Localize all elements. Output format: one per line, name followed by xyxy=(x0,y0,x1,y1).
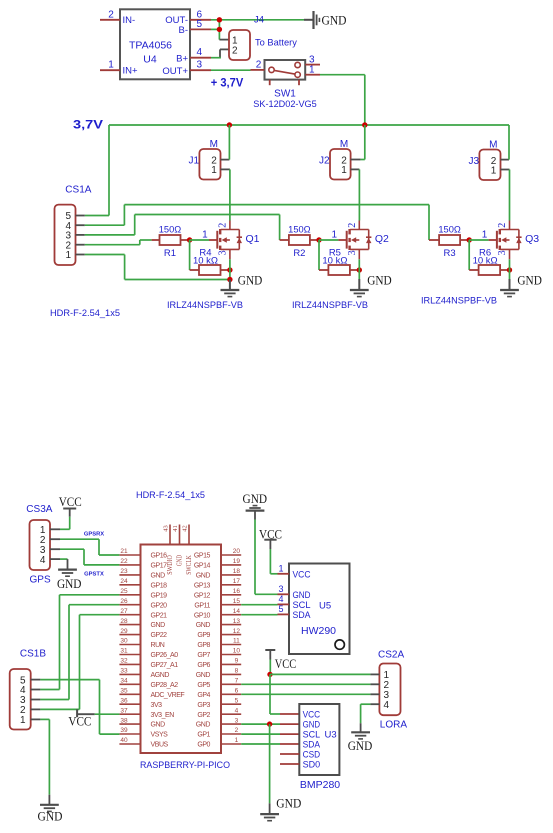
svg-text:3: 3 xyxy=(235,717,239,724)
wire GP10 to HW290 SDA xyxy=(241,614,277,616)
svg-text:CS3A: CS3A xyxy=(26,504,52,515)
svg-text:M: M xyxy=(489,140,497,151)
wire 3,7V rail xyxy=(109,124,509,126)
svg-text:42: 42 xyxy=(181,525,188,532)
wire gate node down to R6 xyxy=(469,240,478,270)
wire vertical OUT-/B-/J4 node xyxy=(218,20,220,40)
pico top pin 41 GND xyxy=(172,525,184,567)
junction rail J1 xyxy=(227,122,232,127)
pico right pin 15 GP11 xyxy=(194,598,241,609)
svg-text:J1: J1 xyxy=(188,156,199,167)
pico right pin 1 GP0 xyxy=(197,737,241,748)
svg-text:1: 1 xyxy=(202,230,208,241)
pico left pin 26 GP20 xyxy=(119,598,167,609)
svg-text:1: 1 xyxy=(309,65,315,76)
svg-text:GND: GND xyxy=(348,738,373,753)
svg-text:3: 3 xyxy=(197,60,203,71)
svg-text:14: 14 xyxy=(233,608,241,615)
svg-text:VBUS: VBUS xyxy=(151,742,169,749)
svg-text:GND: GND xyxy=(196,722,211,729)
svg-text:AGND: AGND xyxy=(151,672,170,679)
svg-text:To Battery: To Battery xyxy=(255,38,297,48)
svg-text:LORA: LORA xyxy=(380,719,408,730)
label HDR-F-2.54_1x5 (pico headers) xyxy=(136,490,205,500)
svg-text:Q2: Q2 xyxy=(375,233,389,245)
pico right pin 10 GP7 xyxy=(197,648,241,659)
pico left pin 32 GP27_A1 xyxy=(119,658,178,669)
svg-text:U4: U4 xyxy=(143,54,157,66)
svg-text:GND: GND xyxy=(151,622,166,629)
junction rail SW1/J2 xyxy=(362,122,367,127)
connector CS1B xyxy=(10,648,47,729)
pico left pin 31 GP26_A0 xyxy=(119,648,178,659)
svg-text:GND: GND xyxy=(196,573,211,580)
SW1 pin 3 xyxy=(305,55,320,66)
node source Q3 xyxy=(507,267,512,272)
pico top pin 42 SWCLK xyxy=(181,525,193,575)
svg-text:43: 43 xyxy=(162,525,169,532)
svg-text:GP20: GP20 xyxy=(151,602,168,609)
svg-text:R3: R3 xyxy=(444,248,456,259)
wire J4 pin1 stub xyxy=(219,39,229,41)
ground (CS3A) xyxy=(57,559,82,591)
wire VCC down to node xyxy=(269,660,271,675)
power VCC (BMP/LORA) xyxy=(265,650,296,671)
svg-text:B+: B+ xyxy=(176,53,188,64)
svg-text:HDR-F-2.54_1x5: HDR-F-2.54_1x5 xyxy=(136,490,205,500)
ground (CS1B) xyxy=(38,795,63,824)
pico right pin 18 GND xyxy=(196,568,241,579)
svg-text:Q3: Q3 xyxy=(525,233,539,245)
pico right pin 3 GND xyxy=(196,717,241,728)
BMP280 pin CSD stub xyxy=(280,753,299,755)
svg-text:10 kΩ: 10 kΩ xyxy=(473,256,498,267)
label HDR-F-2.54_1x5 (CS1A) xyxy=(50,308,120,318)
connector J3 xyxy=(468,140,500,181)
svg-text:12: 12 xyxy=(233,628,241,635)
svg-text:SK-12D02-VG5: SK-12D02-VG5 xyxy=(253,99,317,110)
pico right pin 8 GND xyxy=(196,668,241,679)
BMP280 pin SD0 stub xyxy=(280,763,299,765)
svg-text:32: 32 xyxy=(120,658,128,665)
svg-text:30: 30 xyxy=(120,638,128,645)
svg-text:4: 4 xyxy=(235,707,239,714)
wire GPSRX CS3A pin2 to GP16 xyxy=(60,539,119,555)
svg-text:GP19: GP19 xyxy=(151,592,168,599)
svg-text:GND: GND xyxy=(151,573,166,580)
U4 pin 1 IN+ xyxy=(100,60,138,77)
node GND Q1 xyxy=(227,277,232,282)
svg-text:22: 22 xyxy=(120,558,128,565)
svg-text:33: 33 xyxy=(120,668,128,675)
svg-text:GP13: GP13 xyxy=(194,582,211,589)
wire gate node down to R4 xyxy=(190,240,199,270)
transistor Q2 IRLZ44N xyxy=(332,221,390,260)
svg-text:GND: GND xyxy=(57,576,82,591)
wire Q2 source to GND xyxy=(358,259,360,279)
wire VCC to 3V3_EN xyxy=(95,713,120,715)
wire GP1 to BMP280 SCL xyxy=(241,733,299,735)
HW290 pin 1 xyxy=(278,564,290,574)
pico left pin 28 GND xyxy=(119,618,165,629)
pico left pin 30 RUN xyxy=(119,638,164,649)
svg-text:5: 5 xyxy=(278,604,283,614)
svg-text:GND: GND xyxy=(243,491,268,506)
svg-text:R2: R2 xyxy=(293,248,305,259)
svg-text:40: 40 xyxy=(120,737,128,744)
ground (bottom centre) xyxy=(260,796,301,821)
ground (sideways) top right xyxy=(304,11,347,29)
svg-text:GPS: GPS xyxy=(30,575,51,586)
svg-text:VCC: VCC xyxy=(68,714,91,729)
wire gate node to Q1 xyxy=(190,239,218,241)
svg-text:24: 24 xyxy=(120,578,128,585)
svg-text:10: 10 xyxy=(233,648,241,655)
svg-text:IRLZ44NSPBF-VB: IRLZ44NSPBF-VB xyxy=(167,300,243,311)
pico right pin 20 GP15 xyxy=(194,548,241,559)
pico right pin 9 GP6 xyxy=(197,658,241,669)
svg-text:GP14: GP14 xyxy=(194,563,211,570)
wire GP0 to BMP280 SDA xyxy=(241,743,299,745)
switch SW1 body xyxy=(253,60,317,110)
pico left pin 34 GP28_A2 xyxy=(119,678,178,689)
wire VCC node to CS2A pin1 xyxy=(270,673,370,675)
svg-text:1: 1 xyxy=(491,166,497,177)
svg-text:J3: J3 xyxy=(468,156,479,167)
SW1 pin 1 xyxy=(305,65,320,76)
svg-text:IN-: IN- xyxy=(123,15,136,26)
pico right pin 17 GP13 xyxy=(194,578,241,589)
svg-text:3: 3 xyxy=(347,250,358,255)
wire CS3A pin1 to VCC xyxy=(60,517,70,530)
svg-text:TPA4056: TPA4056 xyxy=(129,40,172,52)
svg-text:GND: GND xyxy=(276,796,301,811)
svg-text:SDA: SDA xyxy=(293,610,312,621)
transistor Q3 IRLZ44N xyxy=(482,221,540,260)
power VCC (CS3A) xyxy=(59,494,82,517)
svg-text:2: 2 xyxy=(497,223,508,228)
resistor R4 10k xyxy=(193,248,230,276)
svg-text:CS2A: CS2A xyxy=(378,649,404,660)
U4 pin 6 OUT- xyxy=(165,9,211,26)
svg-text:SD0: SD0 xyxy=(303,759,321,770)
svg-text:4: 4 xyxy=(197,47,203,58)
connector J2 xyxy=(319,139,351,180)
svg-text:3: 3 xyxy=(218,250,229,255)
pico left pin 22 GP17 xyxy=(119,558,167,569)
svg-text:2: 2 xyxy=(256,59,262,70)
wire Q3 source to GND xyxy=(509,259,511,279)
svg-text:VCC: VCC xyxy=(275,656,297,671)
junction node OUT- xyxy=(217,17,222,22)
svg-text:HDR-F-2.54_1x5: HDR-F-2.54_1x5 xyxy=(50,308,120,318)
J1 pin 1 stub xyxy=(221,168,230,170)
svg-text:1: 1 xyxy=(108,60,114,71)
svg-text:VCC: VCC xyxy=(293,570,311,581)
svg-text:38: 38 xyxy=(120,717,128,724)
ground (HW290 top, inverted) xyxy=(243,491,268,520)
svg-text:GP3: GP3 xyxy=(197,702,210,709)
svg-text:B-: B- xyxy=(179,25,189,36)
pico right pin 16 GP12 xyxy=(194,588,241,599)
node source Q2 xyxy=(357,267,362,272)
wire Q1 source to GND xyxy=(229,259,231,279)
wire OUT- to GND xyxy=(211,19,304,21)
power VCC (HW290) xyxy=(259,526,282,549)
svg-text:25: 25 xyxy=(120,588,128,595)
U4 pin 2 IN- xyxy=(100,9,135,26)
svg-text:GND: GND xyxy=(238,272,262,287)
svg-text:18: 18 xyxy=(233,568,241,575)
svg-text:2: 2 xyxy=(347,223,358,228)
svg-text:GP5: GP5 xyxy=(197,682,210,689)
svg-text:VSYS: VSYS xyxy=(151,732,169,739)
svg-text:1: 1 xyxy=(278,564,283,574)
svg-text:ADC_VREF: ADC_VREF xyxy=(151,692,185,699)
HW290 pin 5 xyxy=(278,604,290,614)
svg-text:GP4: GP4 xyxy=(197,692,210,699)
svg-text:VCC: VCC xyxy=(59,494,82,509)
svg-text:GPSRX: GPSRX xyxy=(84,531,104,537)
svg-text:GP26_A0: GP26_A0 xyxy=(151,652,179,659)
svg-text:35: 35 xyxy=(120,688,128,695)
svg-text:11: 11 xyxy=(233,638,240,645)
svg-text:Q1: Q1 xyxy=(246,233,260,245)
wire CS3A pin4 to GND xyxy=(60,558,68,560)
pico left pin 35 ADC_VREF xyxy=(119,688,184,699)
svg-text:GPSTX: GPSTX xyxy=(84,571,104,577)
svg-text:M: M xyxy=(210,139,218,150)
pico left pin 23 GND xyxy=(119,568,165,579)
pico left pin 37 3V3_EN xyxy=(119,707,174,718)
wire VCC node to BMP280 VCC xyxy=(270,674,299,714)
pico left pin 38 GND xyxy=(119,717,165,728)
svg-text:3: 3 xyxy=(278,584,283,594)
wire gate node to Q2 xyxy=(319,239,347,241)
svg-text:1: 1 xyxy=(235,737,239,744)
pico right pin 7 GP5 xyxy=(197,678,241,689)
svg-text:GND: GND xyxy=(38,809,63,824)
wire GND node down xyxy=(269,724,271,803)
svg-text:5: 5 xyxy=(235,697,239,704)
wire CS1B pin5 to VSYS xyxy=(40,680,119,735)
J3 pin 2 stub xyxy=(501,159,510,161)
ground Q2 xyxy=(350,272,392,296)
pico left pin 24 GP18 xyxy=(119,578,167,589)
pico right pin 2 GP1 xyxy=(197,727,241,738)
svg-text:R1: R1 xyxy=(164,248,176,259)
node source Q1 xyxy=(227,267,232,272)
svg-text:HW290: HW290 xyxy=(301,625,336,637)
wire B- to node xyxy=(211,28,219,30)
svg-text:27: 27 xyxy=(120,608,128,615)
wire CS1B pin1 to GND xyxy=(40,719,49,794)
resistor R1 150R xyxy=(159,224,190,259)
svg-text:RUN: RUN xyxy=(151,642,165,649)
pico left pin 29 GP22 xyxy=(119,628,167,639)
resistor R6 10k xyxy=(473,248,510,276)
svg-text:3: 3 xyxy=(497,250,508,255)
wire J2 pin2 to rail xyxy=(361,125,365,160)
op-amp/charger IC U4 TPA4056 body xyxy=(120,9,190,79)
pico left pin 25 GP19 xyxy=(119,588,167,599)
HW290 pin 4 xyxy=(278,594,290,604)
pico right pin 6 GP4 xyxy=(197,688,241,699)
svg-text:2: 2 xyxy=(232,45,238,56)
svg-text:GND: GND xyxy=(322,12,347,27)
svg-text:GP8: GP8 xyxy=(197,642,210,649)
HW290 pin 3 xyxy=(278,584,290,594)
svg-text:4: 4 xyxy=(384,700,390,711)
J2 pin 2 stub xyxy=(351,159,361,161)
U4 pin 4 B+ xyxy=(176,47,211,64)
pico top pin 43 SWDIO xyxy=(162,525,174,575)
pico left pin 27 GP21 xyxy=(119,608,167,619)
connector J1 xyxy=(188,139,220,180)
U4 pin 5 B- xyxy=(179,19,212,36)
wire VCC to HW290 pin1 xyxy=(270,549,277,574)
svg-text:GP9: GP9 xyxy=(197,632,210,639)
resistor R2 150R xyxy=(288,224,319,259)
pico right pin 12 GP9 xyxy=(197,628,241,639)
svg-text:GP2: GP2 xyxy=(197,712,210,719)
power VCC (3V3_EN, sideways) xyxy=(68,709,94,729)
pico right pin 14 GP10 xyxy=(194,608,241,619)
svg-text:GP28_A2: GP28_A2 xyxy=(151,682,179,689)
wire OUT+ to SW1 xyxy=(211,69,251,71)
svg-text:SWCLK: SWCLK xyxy=(185,555,193,575)
svg-text:U5: U5 xyxy=(319,601,331,612)
svg-text:IRLZ44NSPBF-VB: IRLZ44NSPBF-VB xyxy=(292,300,368,311)
wire rail to J1 pin2 xyxy=(228,125,230,160)
svg-text:15: 15 xyxy=(233,598,241,605)
pico left pin 40 VBUS xyxy=(119,737,168,748)
J3 pin 1 stub xyxy=(501,169,510,171)
svg-text:GP16: GP16 xyxy=(151,553,168,560)
svg-text:SWDIO: SWDIO xyxy=(166,555,174,575)
wire J2 pin1 to Q2 drain xyxy=(358,169,360,220)
svg-text:M: M xyxy=(340,139,348,150)
svg-text:GP11: GP11 xyxy=(194,602,210,609)
pico left pin 21 GP16 xyxy=(119,548,167,559)
svg-text:IRLZ44NSPBF-VB: IRLZ44NSPBF-VB xyxy=(421,296,497,307)
wire rail to J3 pin2 xyxy=(508,125,510,160)
wire J4 pin2 jog xyxy=(220,49,229,57)
svg-text:GP10: GP10 xyxy=(194,612,211,619)
microcontroller U-module RASPBERRY-PI-PICO body xyxy=(140,545,230,771)
svg-text:RASPBERRY-PI-PICO: RASPBERRY-PI-PICO xyxy=(140,760,230,770)
svg-text:OUT+: OUT+ xyxy=(162,66,188,77)
wire CS2A pin4 to GND xyxy=(361,704,371,723)
net label + 3,7V xyxy=(211,78,244,90)
ground Q3 xyxy=(500,272,542,296)
svg-text:SW1: SW1 xyxy=(274,89,296,100)
svg-text:+ 3,7V: + 3,7V xyxy=(211,78,244,90)
svg-text:4: 4 xyxy=(40,555,46,566)
wire GPSTX CS3A pin3 to GP17 xyxy=(60,549,119,565)
label IRLZ44NSPBF-VB Q3 xyxy=(421,296,497,307)
connector J4 To Battery xyxy=(229,15,297,61)
pico right pin 4 GP2 xyxy=(197,707,241,718)
svg-text:GND: GND xyxy=(196,672,211,679)
svg-text:GP27_A1: GP27_A1 xyxy=(151,662,179,669)
wire CS1A pin4 to R3 xyxy=(85,205,439,240)
svg-text:3,7V: 3,7V xyxy=(73,120,103,132)
pico left pin 36 3V3 xyxy=(119,697,162,708)
wire GND to HW290 pin3 xyxy=(255,520,278,595)
svg-text:2: 2 xyxy=(108,9,114,20)
net label GPSTX xyxy=(84,571,104,577)
svg-text:36: 36 xyxy=(120,697,128,704)
transistor Q1 IRLZ44N xyxy=(202,221,260,260)
svg-text:GND: GND xyxy=(517,272,542,287)
svg-text:GP12: GP12 xyxy=(194,592,211,599)
svg-text:GP18: GP18 xyxy=(151,582,168,589)
svg-text:39: 39 xyxy=(120,727,128,734)
label IRLZ44NSPBF-VB Q1 xyxy=(167,300,243,311)
svg-text:150Ω: 150Ω xyxy=(159,224,182,234)
svg-text:GP6: GP6 xyxy=(197,662,210,669)
node gate Q2 xyxy=(316,237,321,242)
node gate Q3 xyxy=(467,237,472,242)
net label 3,7V xyxy=(73,120,103,132)
wire CS1A pin3 to R2 xyxy=(85,215,290,241)
resistor R5 10k xyxy=(322,248,359,276)
wire CS1B pin3 to GP20 xyxy=(40,605,119,700)
wire CS1B pin4 to GP19 xyxy=(40,595,119,690)
resistor R3 150R xyxy=(438,224,469,259)
connector CS2A LORA xyxy=(370,649,407,730)
pico right pin 5 GP3 xyxy=(197,697,241,708)
svg-text:8: 8 xyxy=(235,668,239,675)
sensor U3 BMP280 body xyxy=(299,704,340,791)
svg-text:21: 21 xyxy=(120,548,128,555)
svg-text:CS1A: CS1A xyxy=(65,185,91,196)
svg-text:4: 4 xyxy=(278,594,283,604)
node gate Q1 xyxy=(187,237,192,242)
svg-text:GND: GND xyxy=(196,622,211,629)
svg-text:34: 34 xyxy=(120,678,128,685)
svg-text:GP22: GP22 xyxy=(151,632,168,639)
wire CS1A pin1 to GND net xyxy=(85,255,230,280)
svg-text:9: 9 xyxy=(235,658,239,665)
wire rail to CS1A pin5 xyxy=(85,125,109,216)
svg-text:17: 17 xyxy=(233,578,241,585)
pico right pin 11 GP8 xyxy=(197,638,241,649)
svg-text:5: 5 xyxy=(197,19,203,30)
svg-text:J2: J2 xyxy=(319,156,330,167)
J1 pin 2 stub xyxy=(221,159,230,161)
J2 pin 1 stub xyxy=(351,168,360,170)
wire GP11 to HW290 SCL xyxy=(241,604,277,606)
svg-text:GP1: GP1 xyxy=(197,732,210,739)
svg-text:1: 1 xyxy=(211,165,217,176)
svg-text:7: 7 xyxy=(235,678,239,685)
svg-text:U3: U3 xyxy=(325,730,337,741)
wire pico GND to BMP280 GND xyxy=(241,723,299,725)
svg-text:10 kΩ: 10 kΩ xyxy=(322,256,347,267)
svg-text:23: 23 xyxy=(120,568,128,575)
wire CS1A pin2 to R1 xyxy=(85,240,160,245)
svg-text:CS1B: CS1B xyxy=(20,648,46,659)
svg-text:13: 13 xyxy=(233,618,241,625)
ground Q1 xyxy=(221,272,263,296)
svg-text:GND: GND xyxy=(151,722,166,729)
svg-text:2: 2 xyxy=(218,223,229,228)
svg-text:26: 26 xyxy=(120,598,128,605)
svg-text:1: 1 xyxy=(482,230,488,241)
pico left pin 39 VSYS xyxy=(119,727,168,738)
